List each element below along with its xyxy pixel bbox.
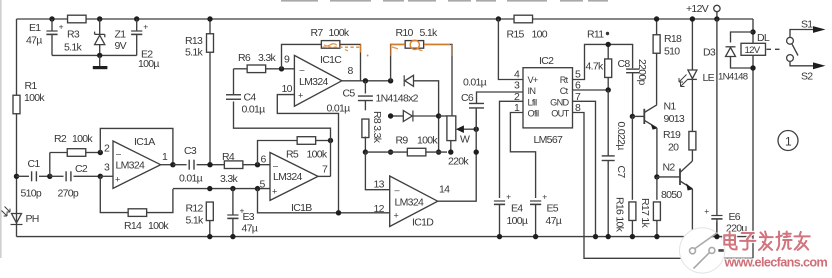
wire IC1A feedback [100,128,173,164]
svg-text:LM324: LM324 [273,171,302,183]
node rail-E1 [49,16,54,21]
capacitor C8 [618,58,649,116]
svg-text:R17 1k: R17 1k [639,198,651,229]
svg-text:IC1A: IC1A [134,136,155,148]
svg-text:R19: R19 [663,129,681,141]
wire bottom ground rail [17,236,754,238]
svg-text:V+: V+ [528,75,538,85]
svg-text:14: 14 [439,184,450,196]
terminal +12V [686,3,720,19]
node relay top [750,29,755,34]
resistor R13 [185,19,214,165]
node C1-C2-R2 [47,174,52,179]
svg-text:R18: R18 [664,33,682,45]
svg-text:D3: D3 [703,47,716,59]
svg-text:+: + [704,206,709,216]
watermark logo [680,222,728,273]
svg-text:OUT: OUT [551,109,569,119]
node R8 bottom [363,149,368,154]
node C1 junction [14,174,19,179]
svg-text:–: – [300,65,305,75]
svg-text:3: 3 [514,80,520,92]
svg-text:270p: 270p [58,188,79,200]
svg-text:+: + [394,211,399,221]
svg-text:220k: 220k [448,155,469,167]
wire N1 emitter down [656,128,658,177]
node R11 top [606,42,611,47]
node IC1A out [170,162,175,167]
svg-text:8050: 8050 [661,189,682,201]
svg-text:R2: R2 [54,133,67,145]
node IC1C pin9 [279,66,284,71]
svg-text:www.elecfans.com: www.elecfans.com [724,256,828,270]
node out-diode [388,78,393,83]
diode D2 [391,111,439,122]
capacitor E6 [704,19,747,237]
wire IC2 pin1 route [510,113,535,199]
resistor R17 [639,177,660,237]
node pot bottom [448,149,453,154]
capacitor C3 [173,145,225,185]
node R16 bottom [630,234,635,239]
page left border [0,0,2,258]
resistor R6 [234,52,295,73]
svg-text:100k: 100k [329,27,350,39]
svg-text:R5: R5 [286,149,299,161]
capacitor E4 [494,192,528,237]
svg-text:R9: R9 [396,135,409,147]
op-amp IC1B [260,153,329,215]
svg-text:C2: C2 [75,163,88,175]
transistor N2 8050 [657,161,693,237]
svg-text:R8 3.3k: R8 3.3k [371,111,383,144]
svg-text:5.1k: 5.1k [186,215,204,227]
switch S2 [787,55,826,83]
svg-text:1N4148x2: 1N4148x2 [376,93,419,105]
node R12 bottom [207,234,212,239]
svg-text:R10: R10 [396,27,414,39]
svg-text:4.7k: 4.7k [586,61,604,73]
svg-text:13: 13 [374,179,385,191]
wire IC1C out [342,80,391,82]
node IC1B pin6 [255,162,260,167]
node N2 base [654,174,659,179]
svg-text:IC1D: IC1D [412,217,434,229]
svg-text:Lfil: Lfil [528,97,538,107]
svg-text:N2: N2 [663,162,676,174]
node D2 left [388,113,393,118]
resistor R9 [365,135,447,156]
node relay bottom [750,65,755,70]
svg-text:R13: R13 [185,35,203,47]
node pin10-bus [336,210,341,215]
svg-text:5.1k: 5.1k [185,47,203,59]
svg-text:+: + [542,192,547,202]
node rail-Z1 [97,16,102,21]
svg-text:IN: IN [528,86,536,96]
svg-text:–: – [273,160,278,170]
wire R5-to-out [330,141,332,177]
svg-text:R12: R12 [186,203,204,215]
wire pin13 route [365,152,389,190]
wire bus to pin12 [258,189,390,213]
svg-text:C7: C7 [615,166,627,179]
node rail-R13 [207,16,212,21]
svg-text:100k: 100k [24,92,45,104]
wire IC1C pin10 route [277,95,338,213]
capacitor C6 [461,77,523,108]
ground [93,55,108,69]
annotation orange R10 [391,40,452,56]
svg-text:E1: E1 [29,22,41,34]
svg-text:W: W [460,133,470,145]
potentiometer W [447,116,476,167]
node IC1A pin3 [98,174,103,179]
node D2 right [436,113,441,118]
capacitor C2 [50,163,101,200]
svg-text:3: 3 [104,162,110,174]
capacitor C5 [327,81,373,115]
resistor R19 [663,79,696,161]
svg-text:C3: C3 [184,145,197,157]
wire IC2 pin4 route [498,19,523,80]
wire IC2 pin5 route [573,44,633,79]
node Z1 bottom [97,53,102,58]
relay DL [741,32,770,56]
node N1 base [630,114,635,119]
resistor R14 [100,176,173,232]
resistor R10 [391,27,452,116]
svg-text:0.01µ: 0.01µ [327,103,351,115]
svg-text:E4: E4 [511,203,523,215]
wire pin3 stub [100,175,113,177]
svg-text:7: 7 [322,164,328,176]
svg-text:C6: C6 [461,92,474,104]
svg-text:0.01µ: 0.01µ [179,173,203,185]
svg-text:R14: R14 [124,220,142,232]
led LE [679,19,715,87]
svg-text:R3: R3 [67,29,80,41]
svg-text:E5: E5 [547,203,559,215]
svg-text:1N4148: 1N4148 [718,72,748,83]
svg-text:+: + [143,22,148,32]
ic LM567 IC2 [514,55,581,146]
resistor R1 [13,80,45,114]
svg-text:2200p: 2200p [636,59,648,86]
svg-text:0.01µ: 0.01µ [463,77,487,89]
wire IC1D out [438,110,477,201]
zener Z1 [95,19,127,55]
wire C4-out link [234,102,331,141]
svg-text:12V: 12V [745,45,761,56]
svg-text:6: 6 [261,154,267,166]
svg-text:R1: R1 [25,80,38,92]
svg-text:100k: 100k [307,149,328,161]
svg-text:47µ: 47µ [546,215,562,227]
node E3 bottom [230,234,235,239]
svg-text:0.01µ: 0.01µ [242,104,266,116]
node R13 bottom [207,162,212,167]
capacitor E3 [227,189,257,237]
capacitor C1 [17,158,50,200]
svg-text:1: 1 [162,151,168,163]
svg-text:R11: R11 [587,29,604,41]
watermark text cn [724,232,809,250]
wire IC2 pin7 route [573,101,596,236]
node IC1D ret [474,149,479,154]
svg-text:10: 10 [282,83,293,95]
svg-text:–: – [395,185,400,195]
node N2 emitter bottom [690,234,695,239]
capacitor E5 [530,192,562,237]
transistor N1 9013 [644,101,685,130]
svg-text:8: 8 [348,65,354,77]
svg-text:100k: 100k [148,220,169,232]
node C7 bottom [606,234,611,239]
node bus-pin5 [255,186,260,191]
wire ref bus [173,188,233,190]
node E4 bottom [497,234,502,239]
wire IC1A out [161,164,173,166]
cropped text remnants (top edge) [281,0,608,2]
capacitor C7 [602,90,627,237]
svg-text:S1: S1 [801,19,813,31]
svg-text:C8: C8 [618,58,631,70]
svg-text:47µ: 47µ [242,223,258,235]
capacitor E2 [131,19,159,70]
node E6 bottom [714,234,719,239]
svg-text:IC1C: IC1C [320,54,342,66]
wire IC2 pin8 route [573,113,754,259]
node diode-tie bottom [436,149,441,154]
svg-text:LM324: LM324 [299,76,328,88]
resistor R8 [362,111,383,152]
switch S1 [787,19,826,56]
photodiode PH [2,207,39,226]
node R5 right [328,138,333,143]
svg-text:LM324: LM324 [116,159,145,171]
resistor R7 feedback [282,27,361,81]
node pin7 gnd [593,234,598,239]
wire C6-bottom [475,108,477,129]
svg-text:R7: R7 [311,27,324,39]
svg-text:+: + [59,22,64,32]
svg-text:R15: R15 [507,29,525,41]
node rail-R15 [496,16,501,21]
svg-text:GND: GND [550,97,569,107]
svg-text:9013: 9013 [664,113,685,125]
resistor R15 [507,15,548,40]
wire relay dashes [767,48,783,50]
resistor R3 [64,15,86,53]
annotation orange R7 [323,44,369,57]
svg-text:20: 20 [668,142,679,154]
svg-text:C1: C1 [28,158,41,170]
node C5 top [363,78,368,83]
wire right vertical (relay/out) [752,19,754,258]
svg-text:5.1k: 5.1k [420,27,438,39]
svg-text:Z1: Z1 [115,29,127,41]
watermark text url [724,256,828,270]
svg-text:PH: PH [26,213,39,225]
svg-text:R6: R6 [238,52,251,64]
svg-text:IC2: IC2 [539,55,554,67]
node rail-E2 [134,16,139,21]
svg-text:3.3k: 3.3k [258,52,276,64]
wire IC1B pin5 [233,188,270,190]
node R9 line left [388,149,393,154]
capacitor E1 [26,19,64,55]
node bus-E3 [230,186,235,191]
wire N1 base stub [632,115,644,117]
svg-text:–: – [116,149,121,159]
svg-text:3.3k: 3.3k [220,173,238,185]
resistor R2 [50,133,101,176]
svg-text:LM324: LM324 [395,197,424,209]
node IC1A pin2 [98,150,103,155]
svg-text:12: 12 [374,203,385,215]
node R17 bottom [654,234,659,239]
svg-text:Rt: Rt [560,75,569,85]
op-amp IC1C [282,54,354,107]
svg-text:510: 510 [664,46,680,58]
svg-text:100: 100 [532,29,548,41]
svg-text:Ofil: Ofil [528,109,540,119]
svg-text:Ct: Ct [560,86,569,96]
svg-text:E3: E3 [243,211,255,223]
svg-text:+: + [506,192,511,202]
svg-text:100k: 100k [72,133,93,145]
node wiper [474,127,479,132]
svg-text:+: + [272,186,277,196]
node rail-12V [714,16,719,21]
svg-text:S2: S2 [801,71,813,83]
svg-text:1: 1 [785,135,792,149]
svg-text:N1: N1 [664,101,677,113]
wire left vertical [16,19,18,237]
svg-text:9: 9 [284,54,290,66]
resistor R4 [220,151,270,185]
svg-text:+: + [115,175,120,185]
diode D1 [376,75,419,104]
svg-text:R4: R4 [222,151,235,163]
svg-text:E6: E6 [729,211,741,223]
svg-text:+: + [298,91,303,101]
node rail-LE [690,16,695,21]
resistor R16 [614,116,636,236]
wire top +12V rail [17,18,754,20]
wire supply bottom [52,54,137,56]
svg-text:5.1k: 5.1k [64,42,82,54]
figure number 1 [778,131,798,151]
node rail-R18 [654,16,659,21]
resistor R5 feedback [258,137,331,165]
svg-text:R16 10k: R16 10k [614,197,626,233]
wire IC2 pin6 route [573,89,609,91]
svg-text:LE: LE [703,72,715,84]
wire IC1B out [318,175,331,177]
svg-text:510p: 510p [21,188,42,200]
wire diode right tie [414,81,439,152]
wire diode row to pot [439,115,447,117]
op-amp IC1D [374,176,451,229]
svg-text:C5: C5 [343,88,356,100]
svg-text:+12V: +12V [686,3,709,15]
svg-text:100k: 100k [417,135,438,147]
svg-text:LM567: LM567 [534,134,563,146]
node bus-R12 [207,186,212,191]
diode D3 [703,32,753,83]
node E5 bottom [533,234,538,239]
svg-text:100µ: 100µ [138,58,159,70]
svg-text:100µ: 100µ [507,215,528,227]
svg-text:C4: C4 [244,92,257,104]
capacitor C4 [226,69,265,116]
resistor R12 [186,202,214,237]
wire IC2 pin2 route [500,101,524,198]
svg-text:DL: DL [757,32,770,44]
svg-text:2: 2 [104,143,110,155]
resistor R18 [653,19,682,105]
svg-text:47µ: 47µ [26,35,42,47]
resistor R11 [586,29,612,91]
op-amp IC1A [104,136,168,188]
svg-text:0.022µ: 0.022µ [615,122,627,151]
node pin6-R11 [606,87,611,92]
svg-text:9V: 9V [115,40,127,52]
